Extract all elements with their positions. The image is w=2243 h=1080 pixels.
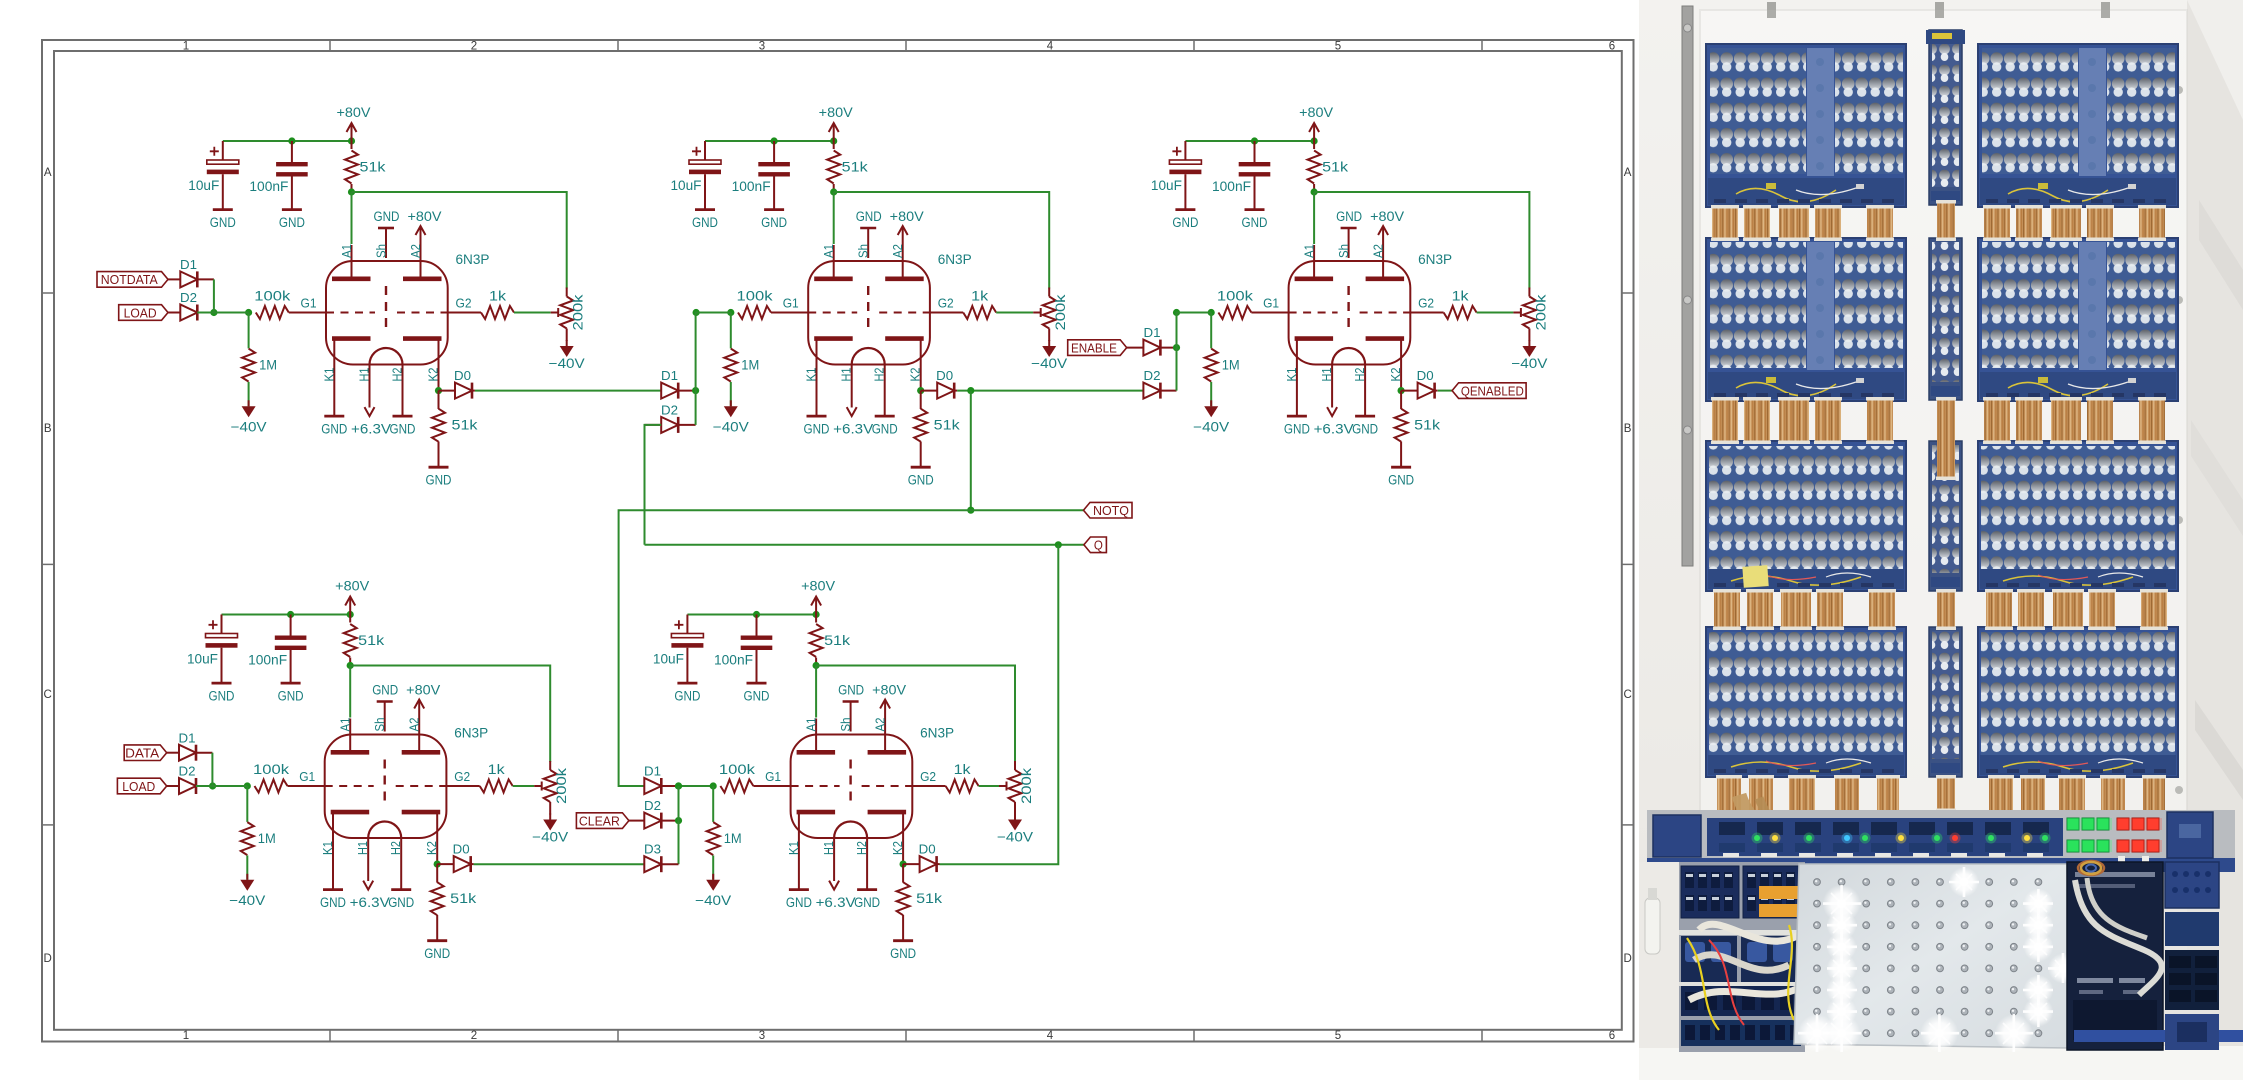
ground GND below 100nF stage 5: [747, 682, 767, 685]
svg-text:+80V: +80V: [408, 209, 442, 224]
capacitor 100nF stage 1: [291, 141, 293, 162]
svg-text:D2: D2: [1144, 369, 1161, 383]
svg-text:10uF: 10uF: [187, 652, 218, 667]
svg-text:51k: 51k: [360, 160, 386, 175]
power +80V at A2 stage 4: [418, 700, 420, 719]
svg-text:D0: D0: [919, 843, 936, 857]
svg-text:H1: H1: [840, 367, 854, 381]
resistor 51k cathode load stage 4: [436, 864, 438, 882]
potentiometer 200k stage 5: [1009, 770, 1022, 802]
svg-text:G2: G2: [456, 297, 472, 311]
wire anode node to A1 stage 4: [349, 666, 351, 718]
svg-text:1M: 1M: [724, 831, 742, 846]
power +80V stage 4: [349, 597, 351, 615]
svg-text:+6.3V: +6.3V: [351, 422, 391, 437]
resistor 51k anode load stage 4: [344, 624, 357, 657]
wire Q to stage2 D2: [645, 425, 662, 545]
svg-text:100nF: 100nF: [249, 179, 288, 194]
svg-text:Q: Q: [1094, 538, 1103, 553]
wire stage5 D2/D3 riser: [678, 786, 680, 864]
label DATA input: [124, 745, 167, 761]
junction G1 input node stage 3: [1173, 309, 1180, 316]
svg-text:NOTDATA: NOTDATA: [101, 272, 158, 287]
wire +80V rail stage 1: [223, 140, 352, 142]
wire 1k to pot wiper stage 3: [1477, 312, 1514, 314]
capacitor 10uF stage 1: [222, 141, 224, 160]
power -40V below pot stage 2: [1048, 340, 1050, 346]
svg-text:+80V: +80V: [1299, 105, 1333, 120]
wire anode node to pot top stage 3: [1314, 192, 1529, 289]
junction G1 input node stage 1: [210, 309, 217, 316]
svg-text:B: B: [44, 423, 52, 435]
sheet inner border: [54, 51, 1622, 1030]
svg-text:−40V: −40V: [1193, 419, 1229, 434]
diode D1 stage 5: [644, 778, 661, 794]
svg-text:GND: GND: [1242, 215, 1268, 230]
power -40V below pot stage 3: [1528, 340, 1530, 346]
power -40V below 1M stage 4: [246, 874, 248, 880]
svg-text:D0: D0: [453, 843, 470, 857]
svg-text:+6.3V: +6.3V: [1314, 422, 1354, 437]
wire G1 node to 100k stage 2: [696, 312, 731, 314]
potentiometer 200k stage 3: [1523, 297, 1536, 329]
svg-text:A1: A1: [822, 244, 836, 258]
svg-text:D: D: [44, 953, 52, 965]
wire 1k to pot wiper stage 4: [513, 785, 535, 787]
ground GND at K1 stage 5: [789, 888, 809, 891]
power +6.3V at H1 stage 5: [829, 881, 839, 890]
svg-text:−40V: −40V: [1511, 356, 1547, 371]
tube 6N3P stage 5: [791, 735, 913, 839]
svg-text:H2: H2: [873, 367, 887, 381]
svg-text:D3: D3: [644, 843, 661, 857]
svg-text:2: 2: [471, 41, 477, 53]
svg-text:GND: GND: [321, 422, 347, 437]
ground GND at K1 stage 1: [324, 415, 344, 418]
junction 100k/1M node stage 5: [710, 782, 717, 789]
svg-text:Sh: Sh: [1337, 244, 1351, 258]
ground GND at K1 stage 4: [323, 888, 343, 891]
svg-text:GND: GND: [390, 422, 416, 437]
svg-text:5: 5: [1335, 1030, 1341, 1042]
svg-text:6N3P: 6N3P: [456, 252, 490, 267]
resistor 1k stage 2: [930, 312, 963, 314]
diode D2 stage 2: [645, 424, 662, 426]
power -40V below 1M stage 3: [1210, 400, 1212, 406]
junction 100k/1M node stage 2: [727, 309, 734, 316]
wire +80V rail stage 4: [222, 614, 351, 616]
wire Q line: [645, 544, 1084, 546]
svg-text:QENABLED: QENABLED: [1461, 383, 1524, 398]
power +80V stage 1: [351, 123, 353, 141]
power +80V at A2 stage 2: [902, 226, 904, 245]
svg-text:200k: 200k: [1533, 294, 1548, 330]
svg-text:GND: GND: [278, 689, 304, 704]
svg-text:GND: GND: [761, 215, 787, 230]
svg-text:CLEAR: CLEAR: [579, 813, 620, 828]
wire D1 to G1 node stage 1: [213, 279, 215, 312]
svg-text:H2: H2: [389, 841, 403, 855]
svg-text:10uF: 10uF: [188, 178, 219, 193]
svg-text:K2: K2: [891, 841, 905, 855]
ground GND below 10uF stage 2: [695, 208, 715, 211]
svg-text:K2: K2: [425, 841, 439, 855]
resistor 1M grid leak stage 2: [730, 313, 732, 349]
svg-text:NOTQ: NOTQ: [1093, 503, 1129, 518]
junction G1 input node stage 4: [209, 782, 216, 789]
svg-text:G1: G1: [783, 297, 799, 311]
junction K2/D0 node stage 5: [900, 861, 907, 868]
wire +80V rail stage 2: [705, 140, 834, 142]
diode D0 stage 4: [437, 863, 454, 865]
diode D2 stage 4: [167, 785, 179, 787]
svg-text:1M: 1M: [741, 358, 759, 373]
ground GND below 10uF stage 3: [1175, 208, 1195, 211]
wire stage3 D0 to QENABLED: [1438, 390, 1452, 392]
capacitor 100nF stage 4: [290, 615, 292, 636]
ground GND at shield pin stage 1: [378, 227, 394, 230]
svg-text:GND: GND: [692, 215, 718, 230]
wire stage1 D0 to stage2 D1: [475, 390, 661, 392]
junction stage3 D1 node: [1173, 344, 1180, 351]
svg-text:+6.3V: +6.3V: [350, 895, 390, 910]
svg-text:200k: 200k: [571, 294, 586, 330]
ground GND at H2 stage 2: [875, 415, 895, 418]
junction stage5 D1 node: [675, 782, 682, 789]
capacitor 10uF stage 3: [1184, 141, 1186, 160]
svg-text:4: 4: [1047, 1030, 1054, 1042]
svg-text:A2: A2: [891, 244, 905, 258]
power -40V below pot stage 5: [1014, 814, 1016, 820]
svg-text:GND: GND: [1352, 422, 1378, 437]
svg-text:+80V: +80V: [406, 683, 440, 698]
resistor 51k anode load stage 1: [345, 151, 358, 184]
svg-text:H2: H2: [855, 841, 869, 855]
wire +80V rail stage 3: [1185, 140, 1314, 142]
resistor 1M grid leak stage 5: [712, 786, 714, 822]
power +80V stage 2: [833, 123, 835, 141]
svg-text:+80V: +80V: [872, 683, 906, 698]
capacitor 100nF stage 3: [1254, 141, 1256, 162]
svg-text:H2: H2: [391, 367, 405, 381]
svg-text:A1: A1: [1303, 244, 1317, 258]
power -40V below 1M stage 1: [248, 400, 250, 406]
diode D1 stage 3: [1127, 347, 1144, 349]
svg-text:A: A: [1624, 167, 1632, 179]
power +80V stage 3: [1313, 123, 1315, 141]
wire stage2 D2 to D1 node: [695, 391, 697, 425]
resistor 100k grid stopper stage 1: [256, 306, 289, 319]
resistor 1k stage 1: [448, 312, 481, 314]
ground GND at shield pin stage 3: [1341, 227, 1357, 230]
svg-text:GND: GND: [388, 895, 414, 910]
ground GND below 51k stage 4: [427, 939, 447, 942]
power -40V below 1M stage 2: [730, 400, 732, 406]
svg-text:GND: GND: [856, 209, 882, 224]
svg-text:ENABLE: ENABLE: [1071, 340, 1117, 355]
svg-text:K1: K1: [805, 367, 819, 381]
diode D0 stage 1: [439, 390, 456, 392]
wire anode node to pot top stage 2: [834, 192, 1049, 289]
svg-text:GND: GND: [854, 895, 880, 910]
diode D3 stage 5: [644, 856, 661, 872]
potentiometer 200k stage 4: [544, 770, 557, 802]
junction rail/+80V stage 5: [813, 611, 820, 618]
svg-text:GND: GND: [1388, 473, 1414, 488]
resistor 1k stage 5: [912, 785, 945, 787]
resistor 51k cathode load stage 1: [438, 391, 440, 409]
wire stage2 D0 to stage3 D2: [957, 390, 1143, 392]
diode D2 stage 3: [1143, 383, 1160, 399]
svg-text:GND: GND: [872, 422, 898, 437]
ground GND below 100nF stage 4: [281, 682, 301, 685]
wire G1 node to 100k stage 3: [1177, 312, 1212, 314]
wire anode node to A1 stage 1: [351, 192, 353, 244]
svg-text:GND: GND: [890, 946, 916, 961]
ground GND below 51k stage 3: [1391, 466, 1411, 469]
svg-text:−40V: −40V: [549, 356, 585, 371]
capacitor 100nF stage 5: [756, 615, 758, 636]
svg-text:D2: D2: [644, 799, 661, 813]
junction stage2 D1 node: [692, 387, 699, 394]
ground GND at H2 stage 3: [1355, 415, 1375, 418]
svg-text:LOAD: LOAD: [124, 305, 157, 320]
svg-text:200k: 200k: [1019, 768, 1034, 804]
ground GND below 10uF stage 1: [213, 208, 233, 211]
ground GND below 100nF stage 1: [282, 208, 302, 211]
power +6.3V at H1 stage 2: [847, 407, 857, 416]
junction rail/+80V stage 1: [348, 137, 355, 144]
wire 1k to pot wiper stage 2: [996, 312, 1033, 314]
power -40V below pot stage 1: [566, 340, 568, 346]
label LOAD input stage 4: [117, 778, 166, 794]
resistor 1k stage 3: [1410, 312, 1443, 314]
svg-text:1: 1: [183, 41, 189, 53]
tube 6N3P stage 3: [1289, 261, 1411, 365]
svg-text:H1: H1: [356, 841, 370, 855]
svg-text:51k: 51k: [1322, 160, 1348, 175]
wire stage3 D2/D1 riser: [1177, 313, 1212, 391]
junction NOTQ line: [967, 507, 974, 514]
potentiometer 200k stage 2: [1043, 297, 1056, 329]
svg-text:D1: D1: [180, 258, 197, 272]
wire D2 to G1 node stage 1: [197, 312, 248, 314]
svg-text:1k: 1k: [954, 762, 971, 777]
junction Q line: [1055, 541, 1062, 548]
svg-text:D2: D2: [661, 403, 678, 417]
svg-text:GND: GND: [1336, 209, 1362, 224]
diode D0 stage 5: [903, 863, 920, 865]
power +6.3V at H1 stage 1: [365, 407, 375, 416]
power -40V below 1M stage 5: [712, 874, 714, 880]
power +6.3V at H1 stage 3: [1327, 407, 1337, 416]
resistor 1M grid leak stage 1: [248, 313, 250, 349]
svg-text:G1: G1: [765, 770, 781, 784]
label ENABLE input: [1068, 340, 1127, 356]
svg-text:+6.3V: +6.3V: [816, 895, 856, 910]
junction K2/D0 node stage 2: [917, 387, 924, 394]
svg-text:D: D: [1623, 953, 1631, 965]
resistor 100k grid stopper stage 4: [255, 780, 288, 793]
svg-text:−40V: −40V: [1031, 356, 1067, 371]
svg-text:100k: 100k: [737, 289, 773, 304]
svg-text:K2: K2: [427, 367, 441, 381]
wire 1k to pot wiper stage 5: [979, 785, 999, 787]
wire anode node to A1 stage 5: [815, 666, 817, 718]
svg-text:51k: 51k: [358, 633, 384, 648]
svg-text:D1: D1: [1144, 326, 1161, 340]
resistor 100k grid stopper stage 3: [1218, 306, 1251, 319]
junction rail/+80V stage 2: [830, 137, 837, 144]
diode D0 stage 3: [1401, 390, 1418, 392]
svg-text:+80V: +80V: [819, 105, 853, 120]
svg-text:D0: D0: [454, 369, 471, 383]
svg-text:D2: D2: [179, 765, 196, 779]
svg-text:1M: 1M: [1222, 358, 1240, 373]
svg-text:GND: GND: [674, 689, 700, 704]
svg-text:−40V: −40V: [713, 419, 749, 434]
svg-text:A2: A2: [1372, 244, 1386, 258]
svg-text:H1: H1: [358, 367, 372, 381]
svg-text:GND: GND: [838, 683, 864, 698]
svg-text:G1: G1: [301, 297, 317, 311]
diode D2 stage 5: [629, 820, 644, 822]
ground GND at shield pin stage 5: [843, 700, 859, 703]
wire anode node to A1 stage 2: [833, 192, 835, 244]
junction G1 input node stage 5: [675, 782, 682, 789]
resistor 51k anode load stage 2: [827, 151, 840, 184]
svg-text:6N3P: 6N3P: [938, 252, 972, 267]
svg-text:+80V: +80V: [335, 579, 369, 594]
svg-text:GND: GND: [209, 689, 235, 704]
junction stage5 D2 node: [675, 817, 682, 824]
svg-text:G2: G2: [454, 770, 470, 784]
svg-text:6N3P: 6N3P: [920, 726, 954, 741]
label CLEAR input: [576, 813, 629, 829]
svg-text:G2: G2: [1418, 297, 1434, 311]
svg-text:D0: D0: [1417, 369, 1434, 383]
junction 51k/anode node stage 3: [1311, 188, 1318, 195]
wire G1 node to 100k stage 4: [213, 785, 248, 787]
wire D2 to G1 node stage 4: [196, 785, 247, 787]
svg-text:GND: GND: [804, 422, 830, 437]
svg-text:A1: A1: [339, 717, 353, 731]
power +6.3V at H1 stage 4: [363, 881, 373, 890]
svg-text:−40V: −40V: [231, 419, 267, 434]
svg-text:D1: D1: [661, 369, 678, 383]
wire +80V rail stage 5: [687, 614, 816, 616]
svg-text:+6.3V: +6.3V: [833, 422, 873, 437]
resistor 51k anode load stage 3: [1308, 151, 1321, 184]
svg-text:D1: D1: [179, 731, 196, 745]
svg-text:+80V: +80V: [890, 209, 924, 224]
junction 51k/anode node stage 5: [813, 662, 820, 669]
svg-text:10uF: 10uF: [1151, 178, 1182, 193]
resistor 100k grid stopper stage 5: [720, 780, 753, 793]
svg-text:1k: 1k: [489, 289, 506, 304]
svg-text:GND: GND: [1172, 215, 1198, 230]
svg-text:LOAD: LOAD: [122, 779, 155, 794]
junction 100k/1M node stage 4: [244, 782, 251, 789]
junction 51k/anode node stage 1: [348, 188, 355, 195]
svg-text:D2: D2: [180, 291, 197, 305]
label NOTQ output: [1084, 502, 1133, 518]
svg-text:DATA: DATA: [125, 746, 159, 761]
svg-text:Sh: Sh: [375, 244, 389, 258]
ground GND below 100nF stage 2: [764, 208, 784, 211]
svg-text:51k: 51k: [916, 891, 942, 906]
wire anode node to pot top stage 4: [350, 666, 550, 763]
wire anode node to pot top stage 1: [352, 192, 567, 289]
wire anode node to pot top stage 5: [816, 666, 1015, 763]
svg-text:200k: 200k: [1053, 294, 1068, 330]
resistor 1k stage 4: [446, 785, 479, 787]
svg-text:H2: H2: [1353, 367, 1367, 381]
svg-text:100k: 100k: [253, 762, 289, 777]
junction 100k/1M node stage 1: [245, 309, 252, 316]
resistor 1M grid leak stage 3: [1210, 313, 1212, 349]
svg-text:GND: GND: [279, 215, 305, 230]
junction rail/+80V stage 4: [347, 611, 354, 618]
svg-text:GND: GND: [320, 895, 346, 910]
resistor 51k anode load stage 5: [810, 624, 823, 657]
svg-text:10uF: 10uF: [653, 652, 684, 667]
ground GND below 51k stage 5: [893, 939, 913, 942]
wire G1 node to 100k stage 5: [679, 785, 714, 787]
power +80V stage 5: [815, 597, 817, 615]
svg-text:6: 6: [1609, 41, 1615, 53]
svg-text:−40V: −40V: [229, 893, 265, 908]
junction rail/100nF stage 1: [288, 137, 295, 144]
diode D1 stage 2: [661, 383, 678, 399]
svg-text:−40V: −40V: [997, 830, 1033, 845]
svg-text:100k: 100k: [719, 762, 755, 777]
svg-text:100k: 100k: [1217, 289, 1253, 304]
svg-text:GND: GND: [372, 683, 398, 698]
svg-text:1k: 1k: [1452, 289, 1469, 304]
svg-text:2: 2: [471, 1030, 477, 1042]
capacitor 10uF stage 5: [686, 615, 688, 634]
svg-text:A2: A2: [408, 717, 422, 731]
svg-text:GND: GND: [374, 209, 400, 224]
capacitor 10uF stage 2: [704, 141, 706, 160]
svg-text:K1: K1: [322, 367, 336, 381]
junction NOTQ takeoff: [967, 387, 974, 394]
diode D2 stage 1: [168, 312, 180, 314]
junction 51k/anode node stage 4: [347, 662, 354, 669]
wire anode node to A1 stage 3: [1313, 192, 1315, 244]
svg-text:GND: GND: [744, 689, 770, 704]
wire G1 node to 100k stage 1: [214, 312, 249, 314]
svg-text:51k: 51k: [452, 418, 478, 433]
svg-text:C: C: [44, 689, 52, 701]
svg-text:+80V: +80V: [801, 579, 835, 594]
svg-text:K1: K1: [321, 841, 335, 855]
svg-text:G2: G2: [938, 297, 954, 311]
svg-text:−40V: −40V: [532, 830, 568, 845]
power +80V at A2 stage 3: [1382, 226, 1384, 245]
svg-text:1: 1: [183, 1030, 189, 1042]
ground GND below 10uF stage 5: [677, 682, 697, 685]
svg-text:Sh: Sh: [839, 717, 853, 731]
svg-text:GND: GND: [210, 215, 236, 230]
power +80V at A2 stage 1: [420, 226, 422, 245]
svg-text:51k: 51k: [450, 891, 476, 906]
label QENABLED output: [1452, 383, 1526, 399]
resistor 1M grid leak stage 4: [246, 786, 248, 822]
svg-text:A1: A1: [805, 717, 819, 731]
svg-text:GND: GND: [786, 895, 812, 910]
